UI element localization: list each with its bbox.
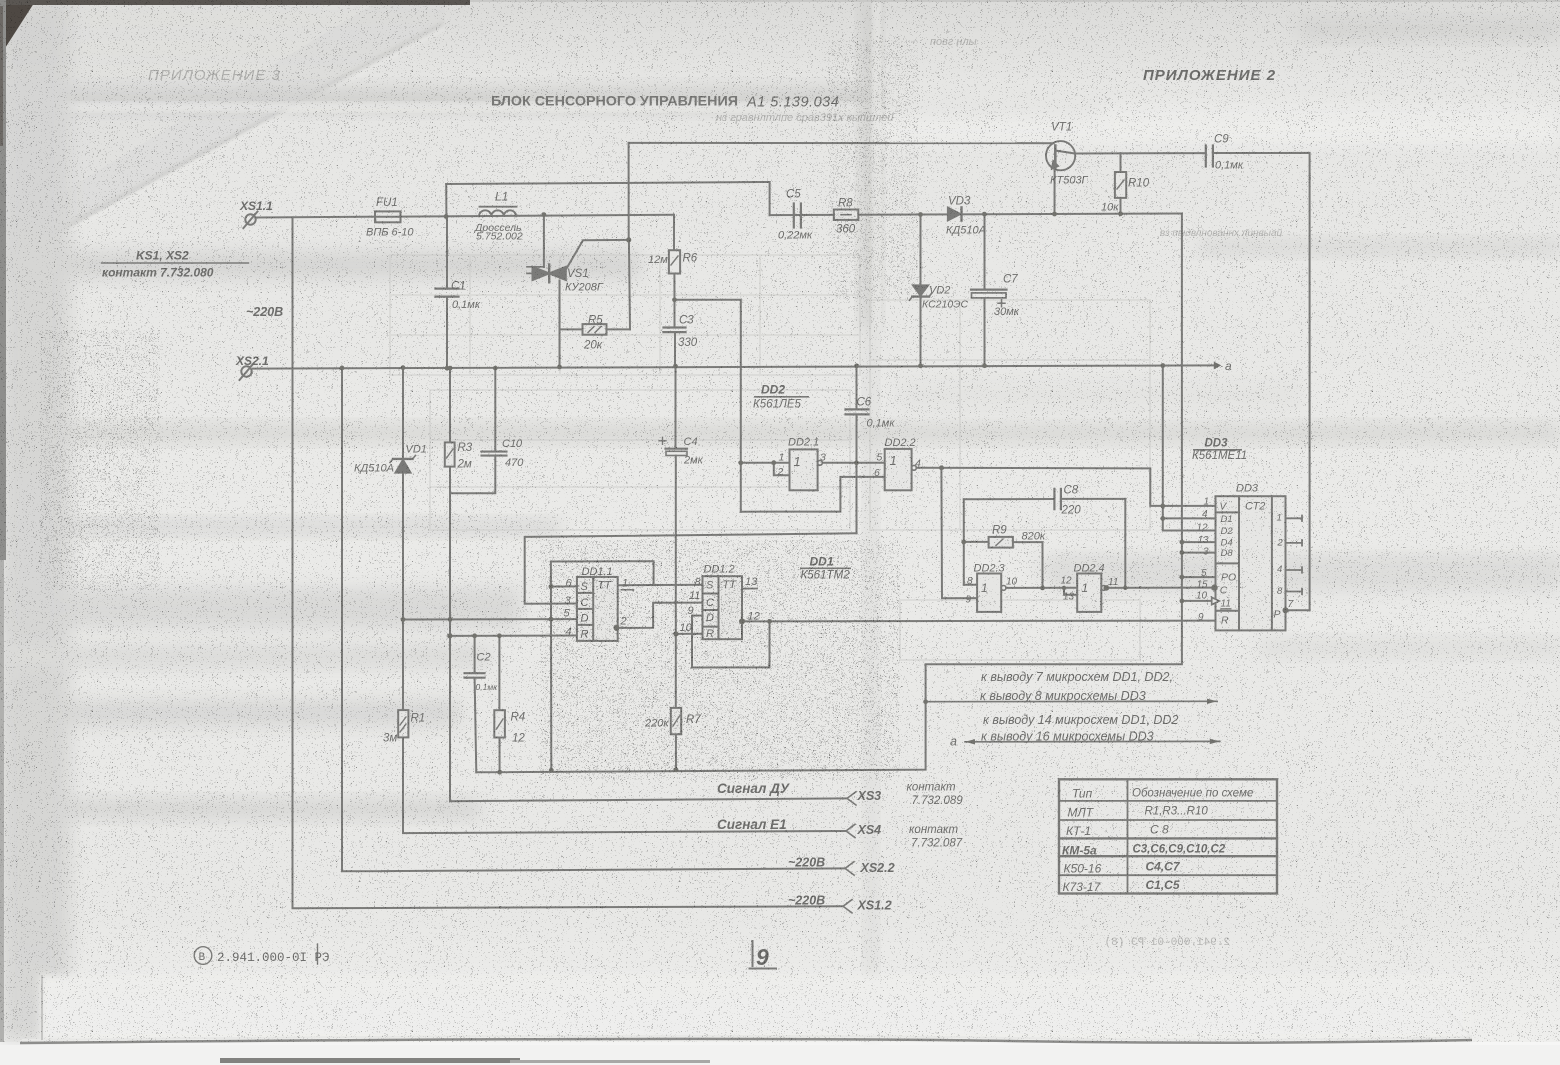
broad soft bands [0,252,640,278]
wire XS3 branch (R3 bus) [450,368,847,801]
zener VD2 [910,285,932,300]
flip-flop DD1.2 [703,576,743,639]
wire DD1.2 pin12 to DD3 R [742,620,1215,623]
wire P pin stub [1286,609,1310,611]
node DD3 pin numbers [1196,497,1295,624]
node DD3 P output [1283,607,1289,613]
node supply row junctions [918,212,923,217]
gate DD2.4 [1077,574,1106,612]
resistor R5 [560,240,631,335]
wire C8 right leg [1124,499,1126,588]
wire top bar drop to mains [445,184,447,217]
wire VD2 leg [920,215,922,286]
wire DD2.3 pin9 drop [941,468,977,598]
wire DD1.1 S input [551,585,577,587]
node a-row junctions [340,366,345,371]
resistor R8 [834,210,859,220]
triac VS1 [527,215,629,367]
node VS1 gate junction [626,237,631,242]
wire DD1.1 pin2 to DD1.2 C [617,603,703,628]
node k vyvodu notes [950,670,1178,749]
node DD3 C input [1211,584,1217,590]
wire XS4 branch (R1/VD1 bus) [403,368,846,833]
wire DD2.4 output to DD3 C [1106,587,1214,589]
wire C3 legs [674,300,676,327]
capacitor C2 [465,673,485,678]
wire C8 top [964,498,1054,500]
node R6/C3 junction [672,297,677,302]
capacitor C1 [436,289,459,297]
wire C7 leg [984,214,986,289]
capacitor C6 [846,409,869,414]
transistor VT1 [1046,141,1075,214]
node bottom bus junctions [497,770,502,775]
wire R4 leg [498,636,500,710]
node DD3 header labels [1192,438,1247,463]
resistor R3 [445,442,455,466]
wire DD1.1 D input [403,618,577,620]
node V/D1 bus junctions [1160,504,1165,509]
node DD2.2 output junction [939,465,944,470]
wire Q bus of DD1.1 (S,D tie) [551,561,654,585]
capacitor C3 [664,328,686,333]
connector XS1.1 pin symbol [244,212,258,229]
wire DD2.2 output to DD3 V [916,468,1215,506]
wire C2 leg [474,636,476,673]
capacitor C4 polarized [659,437,687,455]
wire C10 leg and loop to R3 [494,368,496,451]
flip-flop DD1.1 [577,577,618,641]
wire top bar over L1 [446,182,769,215]
left margin slightly darker [0,0,70,1042]
resistor R10 [1115,153,1126,214]
wire supply row C5-R8-VD3 [770,214,1182,216]
diode VD1 [390,456,416,473]
wire VT1 collector row to C9 [1075,152,1206,154]
node arrow-line junction [923,699,928,704]
wire DD3 D1 input [1163,517,1216,519]
wire DD1.1 C loop and long line to C6 [525,533,857,603]
wire XS2.2 branch [342,368,845,871]
wire R9 left [964,541,989,543]
bottom paper edge [20,1039,1472,1043]
wire DD2.3 pin8 stub [964,584,977,586]
resistor R6 [669,250,680,273]
gate DD2.3 [977,574,1006,612]
page number 19 [750,941,777,969]
wire C8 left leg [963,499,965,585]
wire DD1.2 R input from bus [676,633,703,635]
wire R6 bottom to junction and to DD2 bus [674,274,740,512]
node main row junctions [444,214,449,219]
connector XS2.1 pin symbol [240,364,254,381]
wire arrow line to pin 8 DD3 [926,700,1217,702]
inductor L1 [479,207,517,217]
node D-input row junctions [401,617,406,622]
gate DD2.1 [790,449,823,490]
diode VD3 [948,207,962,220]
wire R9 right drop [1013,542,1043,588]
node DD2.1 input tee [738,460,743,465]
node DD1.1 pin2 [614,625,620,631]
fuse FU1 [375,211,401,222]
folded corner top-left: lighter area above diagonal [0,0,445,266]
wire DD1.1 pin1 to DD1.2 S [618,584,703,587]
node DD2.4 junctions [1062,586,1066,590]
doc number stamp [194,944,317,964]
resistor R7 [671,708,681,734]
wire DD2.4 input stub [1064,588,1077,595]
gate DD2.2 [885,449,917,490]
capacitor C8 [1054,489,1061,509]
wire DD2.1 input tee [741,462,790,464]
node R-input row junctions [447,633,452,638]
wire DD3 D4 input [1182,541,1216,543]
wire DD1.1 R input [450,635,577,637]
node DD1.2 R on bus [673,631,678,636]
capacitor C7 polarized [971,290,1007,307]
node table texts [1062,787,1253,895]
table type/designation [1059,779,1277,893]
node DD2 labels [753,383,809,411]
wire C1 leg [446,217,448,289]
bleed-through from reverse side: faint boxes/lines [390,255,1150,660]
node supply bus junctions at DD3 [1180,540,1185,545]
capacitor C9 [1206,146,1213,167]
capacitor C10 [482,452,507,456]
capacitor C5 [794,204,801,228]
node C6 output junction [854,460,859,465]
node R9 junctions [961,540,966,545]
node DD3 cell labels [1220,501,1281,627]
wire DD2.3 output [1006,587,1077,589]
wire supply return loop to DD3 zone [476,214,1182,773]
resistor R1 [398,710,408,737]
wire XS1.2 branch [293,217,844,908]
scanner edge artifacts [0,0,36,56]
wire C6 leg [856,366,858,409]
wire a-net drop to D1 D2 V [1163,366,1216,531]
vertical center fold [862,0,878,330]
wire R6 top leg [673,215,675,250]
wire XS1.1 mains row [256,215,674,218]
counter DD3 [1212,496,1286,630]
bottom bright strip above paper edge [40,975,1470,1041]
node DD1 labels [800,555,851,582]
node KS1 XS2 note [101,249,249,280]
resistor R4 [494,710,505,737]
wire arrow line a to pin 16 DD3 [965,740,1220,742]
wire DD1.2 pin13 stub [744,588,758,590]
wire DD3 output stubs [1286,516,1303,595]
wire DD2.1 output [822,462,884,464]
horizontal crease upper left [0,88,880,110]
wire DD2.2 input 6 route [741,477,885,512]
node S-input junction [549,584,554,589]
resistor R9 [989,537,1013,548]
wire VS1 gate drop [628,143,630,240]
wire VT1 base line [629,142,1054,144]
wire C4/R7 bus [675,366,677,447]
wire DD3 D8 input [1182,552,1216,554]
wire DD3 PO input [1182,576,1216,578]
wire DD1.2 D feedback hook [692,616,770,668]
wire DD3 clock input [1182,600,1212,602]
node DD1.2 pin12 and feedback [739,618,745,624]
wire XS2.1 "a" net row [253,365,1214,368]
